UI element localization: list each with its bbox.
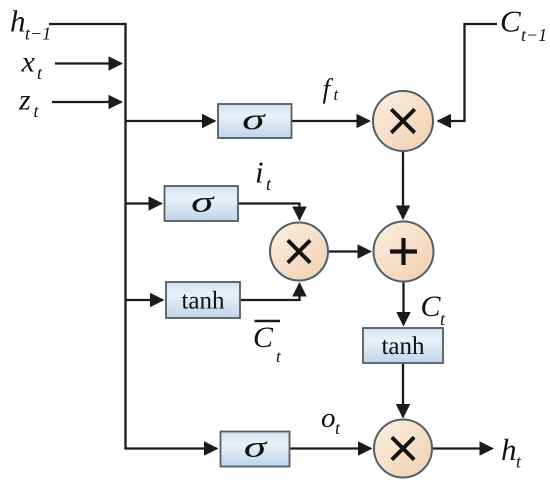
svg-text:t: t [334, 85, 340, 104]
wire x_t arrow into bus [55, 62, 122, 64]
multiply node top (forget) [373, 91, 433, 151]
plus node [374, 222, 434, 282]
label x_t [21, 46, 44, 84]
sigma box forget gate [218, 103, 292, 138]
svg-text:t: t [266, 174, 272, 194]
label o_t [321, 402, 341, 438]
svg-text:x: x [21, 46, 36, 79]
svg-text:C: C [421, 290, 442, 323]
wire multiply f down to plus node [402, 152, 404, 219]
svg-text:t: t [335, 418, 341, 438]
svg-text:f: f [323, 74, 334, 104]
tanh box output [363, 328, 443, 363]
wire h_{t-1} into bus and bus down to output gate branch [49, 24, 217, 449]
svg-text:σ: σ [244, 430, 269, 463]
wire bus branch to input gate sigma [126, 202, 162, 204]
sigma box output gate [221, 430, 290, 466]
label h_t [501, 432, 522, 472]
svg-text:tanh: tanh [181, 288, 225, 315]
svg-text:z: z [18, 84, 31, 117]
wire sigma f out to multiply node [292, 120, 370, 122]
svg-text:t: t [440, 309, 446, 329]
svg-text:t: t [34, 101, 40, 121]
label i_t [255, 155, 272, 195]
tanh box candidate [166, 282, 240, 318]
svg-text:σ: σ [191, 186, 216, 219]
wire bus branch to forget gate sigma [126, 120, 216, 122]
wire plus node down to tanh box [402, 282, 404, 326]
label f_t [323, 74, 340, 105]
svg-text:tanh: tanh [381, 333, 425, 360]
wire sigma i out down into multiply node [238, 204, 300, 220]
wire sigma o out to output multiply node [290, 447, 372, 449]
svg-text:h: h [10, 4, 26, 39]
wire bus branch to tanh box [126, 299, 164, 301]
label z_t [18, 84, 40, 122]
svg-text:t: t [516, 452, 522, 472]
svg-text:t−1: t−1 [25, 24, 51, 44]
sigma box input gate [165, 186, 239, 221]
wire output multiply to h_t [432, 447, 493, 449]
svg-text:h: h [501, 432, 517, 467]
wire tanh box down to output multiply node [402, 363, 404, 417]
multiply node output [374, 420, 432, 478]
svg-text:C: C [253, 321, 274, 354]
svg-text:t: t [276, 347, 282, 366]
svg-text:C: C [500, 4, 521, 39]
svg-text:σ: σ [242, 103, 267, 136]
label C_t [421, 290, 447, 329]
wire z_t arrow into bus [52, 101, 122, 103]
svg-text:t: t [37, 63, 43, 83]
label h_{t-1} [10, 4, 51, 44]
wire tanh out up into multiply node [240, 284, 300, 301]
multiply node middle (input) [270, 223, 328, 281]
wire multiply i out to plus node [328, 250, 371, 252]
svg-text:t−1: t−1 [521, 25, 547, 45]
svg-text:o: o [321, 402, 336, 434]
svg-text:i: i [255, 155, 264, 190]
label C bar t [253, 321, 282, 366]
label C_{t-1} [500, 4, 547, 46]
wire C_{t-1} into multiply node [438, 24, 497, 121]
